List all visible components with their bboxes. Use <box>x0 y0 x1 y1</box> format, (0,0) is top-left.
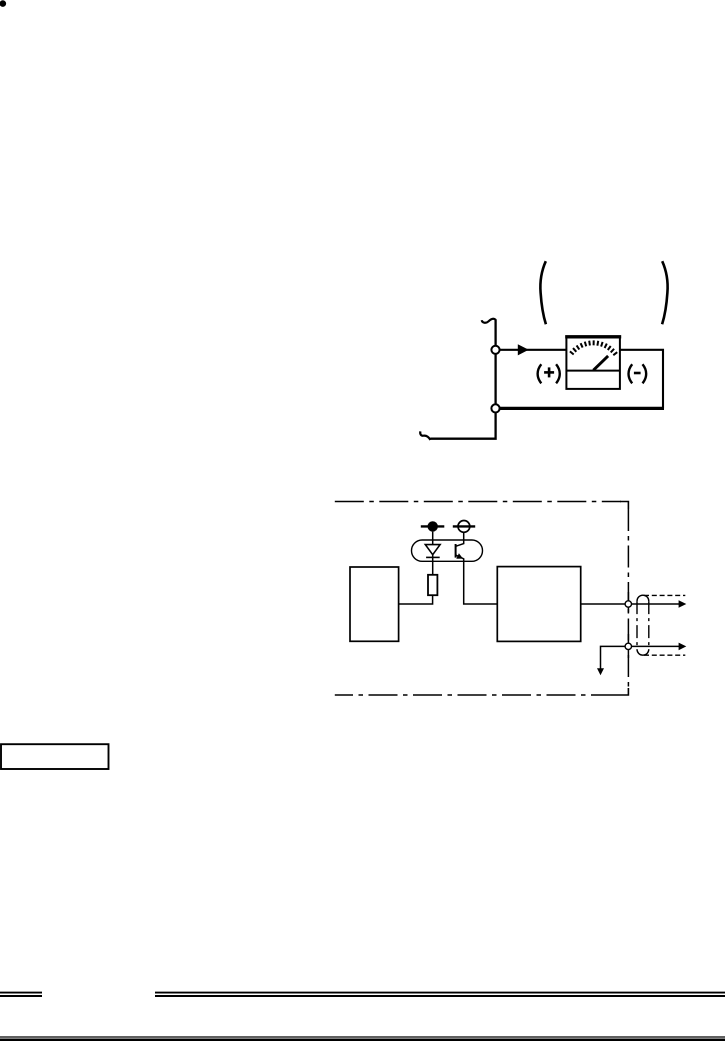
output signal arrow <box>631 603 679 605</box>
bottom page rule thick <box>0 1039 725 1041</box>
LED cathode wire <box>432 555 434 575</box>
meter needle <box>593 356 608 370</box>
phototransistor terminal (open) <box>458 521 470 533</box>
emitter arrowhead <box>456 553 463 558</box>
photocoupler capsule <box>412 540 483 561</box>
output circuit box (right) <box>497 567 580 642</box>
wire break squiggle (top positive lead) <box>482 319 496 323</box>
footer double rule left segment <box>0 993 42 996</box>
LED anode terminal bar <box>421 525 445 527</box>
left parenthesis <box>540 261 546 324</box>
output terminal T1 <box>625 601 631 607</box>
LED cathode bar <box>426 556 440 558</box>
footer double rule right segment <box>155 993 725 996</box>
enclosure dash-dot bottom border <box>335 694 620 696</box>
label (-) <box>629 364 647 383</box>
enclosure dash-dot top border <box>335 501 621 503</box>
shield capsule left side <box>636 601 638 649</box>
phototransistor terminal bar <box>453 525 475 527</box>
ground arrowhead <box>597 668 604 675</box>
shield capsule right side <box>648 601 650 649</box>
phototransistor emitter wire <box>456 555 497 604</box>
common signal arrow <box>631 645 679 647</box>
resistor R1 <box>428 575 437 595</box>
shield cable dashed top <box>644 594 685 596</box>
terminal node (+) <box>491 346 499 354</box>
terminal node (-) <box>491 404 499 412</box>
shield capsule bottom arc <box>637 649 649 655</box>
enclosure bottom-right corner <box>620 688 628 695</box>
enclosure top-right corner <box>620 502 628 510</box>
note box <box>1 744 109 769</box>
right parenthesis <box>662 261 668 324</box>
wire meter (+) lead <box>497 349 567 351</box>
shield cable dashed bottom <box>644 654 685 656</box>
phototransistor collector wire <box>456 532 464 547</box>
wire break squiggle (bottom negative lead) <box>420 431 430 440</box>
return wire (thick bottom) <box>497 407 664 410</box>
label (+) <box>538 364 560 383</box>
border stub at output terminal <box>627 592 629 613</box>
signal converter box (left) <box>350 567 399 641</box>
enclosure dash-dot right border <box>627 509 629 688</box>
wire resistor to left box <box>399 595 433 604</box>
current direction arrowhead <box>518 344 529 355</box>
LED anode terminal (filled) <box>428 521 438 531</box>
common return wire <box>601 646 626 668</box>
LED anode wire <box>432 532 434 545</box>
phototransistor Q1 body bar <box>455 544 457 558</box>
wire (vertical input lead) <box>430 319 495 439</box>
common terminal T2 <box>625 643 631 649</box>
wire meter (-) return loop <box>620 350 663 409</box>
bullet <box>0 0 6 7</box>
border stub at common terminal <box>627 634 629 658</box>
meter top thick edge <box>565 335 621 338</box>
meter zero line <box>566 370 620 372</box>
bottom page rule thin <box>0 1036 725 1038</box>
shield capsule top arc <box>637 595 649 601</box>
LED D1 triangle <box>425 545 440 555</box>
meter scale ticks <box>570 340 617 355</box>
meter M box <box>566 336 620 389</box>
wire right box to output terminal <box>581 603 626 605</box>
